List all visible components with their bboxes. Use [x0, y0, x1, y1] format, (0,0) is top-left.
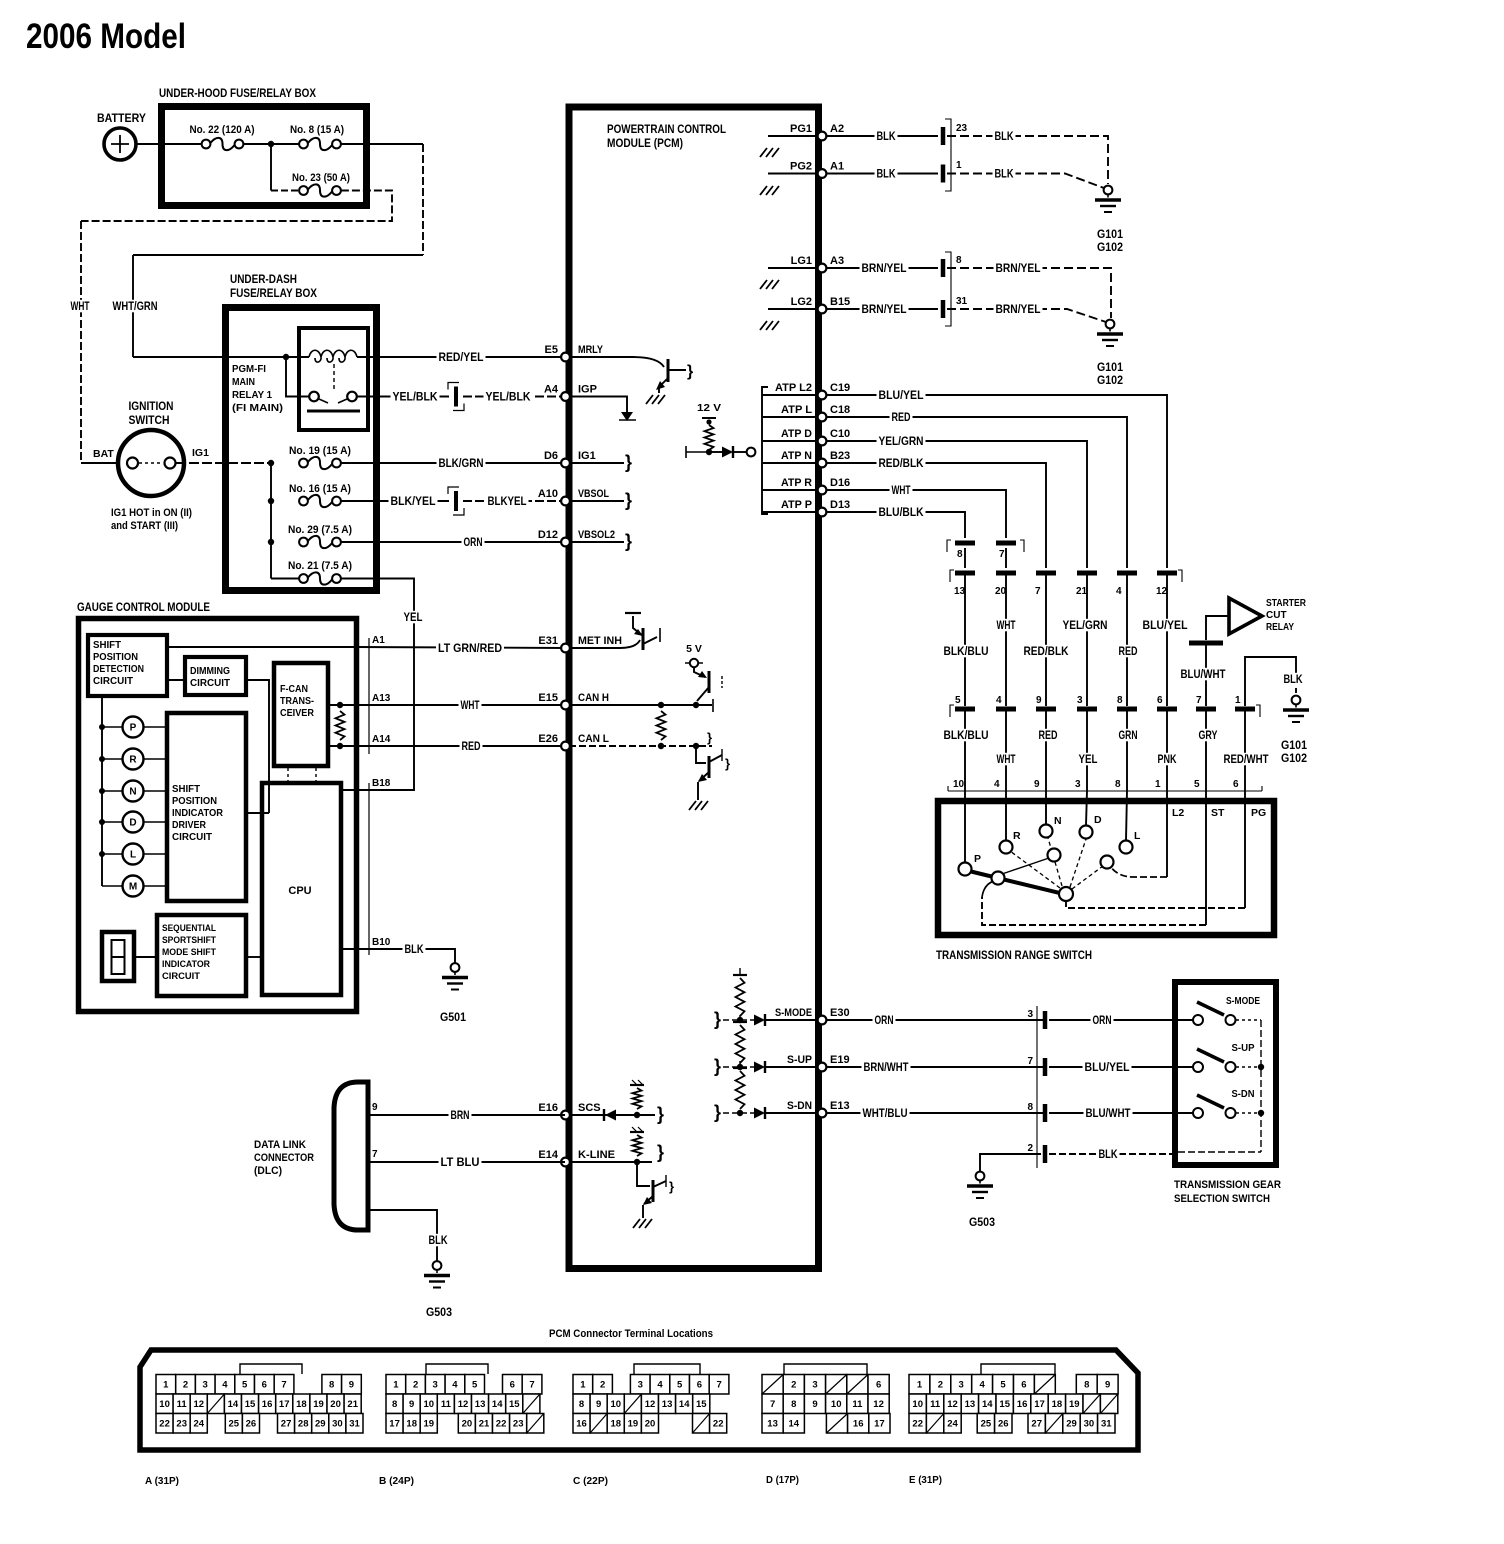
svg-text:VBSOL: VBSOL [578, 488, 609, 500]
fuse No.23 (50 A) [299, 184, 341, 196]
svg-text:1: 1 [393, 1380, 399, 1391]
svg-text:D6: D6 [544, 450, 558, 462]
svg-text:S-UP: S-UP [787, 1054, 812, 1066]
resistor CAN bus internal [657, 711, 666, 740]
label RED row2 [1037, 729, 1060, 742]
svg-text:11: 11 [930, 1399, 941, 1410]
svg-text:BAT: BAT [93, 448, 114, 460]
svg-text:SWITCH: SWITCH [129, 415, 170, 427]
diode D2 SCS [604, 1109, 616, 1121]
label PGM-FI MAIN RELAY 1 (FI MAIN) [232, 364, 283, 414]
svg-text:7: 7 [1035, 586, 1041, 597]
svg-text:2: 2 [413, 1380, 418, 1391]
wire WHT to ignition switch BAT [81, 462, 118, 464]
pin D6 PCM terminal IG1 [544, 450, 596, 467]
wire IG1 to under-dash box [176, 462, 271, 464]
node open circle 12V output [747, 448, 756, 457]
svg-text:11: 11 [177, 1399, 188, 1410]
label BLK/YEL [389, 495, 438, 508]
svg-text:ATP D: ATP D [781, 428, 812, 440]
range switch connector bracket line [948, 786, 1262, 791]
svg-text:}: } [725, 756, 730, 771]
switch S-DN [1193, 1095, 1236, 1118]
connector bar pin 9 row2 [1036, 707, 1056, 712]
wire BRN/YEL A3 to connector [826, 267, 938, 269]
contact R circle [1000, 841, 1013, 854]
svg-text:No. 21 (7.5 A): No. 21 (7.5 A) [288, 560, 352, 572]
svg-text:18: 18 [296, 1399, 307, 1410]
label BLU/YEL column [1141, 619, 1190, 632]
svg-text:BLU/YEL: BLU/YEL [1143, 620, 1188, 632]
connector bracket LG pair [945, 252, 951, 326]
wire K-LINE internal [569, 1161, 652, 1163]
connector bracket main row [950, 570, 1182, 582]
label YEL/GRN ATP [877, 435, 926, 448]
svg-text:BLK/YEL: BLK/YEL [391, 496, 436, 508]
svg-text:K-LINE: K-LINE [578, 1149, 615, 1161]
wire YEL fuse21 to gauge B18 [341, 579, 414, 791]
junction CAN L resistor [658, 743, 664, 749]
label BRN/YEL A3 right [994, 262, 1043, 275]
wire IG1 internal stub [569, 462, 624, 464]
connector bar starter cut relay [1189, 641, 1223, 646]
transistor Q4 CAN L [696, 746, 722, 800]
relay actuator dashed link [333, 364, 335, 390]
svg-text:INDICATOR: INDICATOR [162, 959, 210, 970]
bracket CAN H end [712, 699, 714, 712]
svg-text:25: 25 [981, 1419, 992, 1430]
wire ATP R internal stub [762, 489, 817, 491]
svg-text:(FI MAIN): (FI MAIN) [232, 403, 283, 414]
under-hood fuse/relay box [162, 107, 367, 206]
svg-text:CAN L: CAN L [578, 733, 609, 745]
svg-text:B23: B23 [830, 450, 850, 462]
label BLU/WHT [1179, 668, 1228, 681]
svg-text:2: 2 [183, 1380, 188, 1391]
svg-text:ORN: ORN [875, 1015, 894, 1027]
wiper circle 1 [992, 872, 1005, 885]
connector bar pin 20 main row [996, 571, 1016, 576]
wire S-MODE common dash [1236, 1019, 1261, 1021]
label PNK row2 [1156, 753, 1179, 766]
svg-text:R: R [129, 755, 137, 766]
ground internal MRLY [646, 395, 665, 404]
svg-text:A (31P): A (31P) [145, 1475, 179, 1487]
label BLK/BLU row2 [942, 729, 991, 742]
svg-text:9: 9 [372, 1102, 378, 1113]
svg-text:C19: C19 [830, 382, 850, 394]
wire WHT/GRN into relay coil [133, 356, 309, 358]
svg-text:MODULE (PCM): MODULE (PCM) [607, 138, 683, 150]
label G101 G102 right [1281, 740, 1308, 765]
svg-text:CPU: CPU [288, 885, 311, 897]
svg-text:S-UP: S-UP [1232, 1043, 1255, 1054]
svg-text:BLK: BLK [405, 944, 425, 956]
label IG1 HOT in ON (II) and START (III) [111, 507, 192, 532]
svg-text:G101: G101 [1097, 229, 1124, 241]
wire BLK pin2 to ground G503 [980, 1154, 1041, 1172]
svg-text:FUSE/RELAY BOX: FUSE/RELAY BOX [230, 286, 317, 300]
connector pin 31 [941, 300, 946, 318]
F-CAN transceiver box [274, 663, 328, 766]
pin E26 PCM terminal CAN L [538, 733, 609, 750]
junction A14 resistor bottom [337, 743, 343, 749]
svg-text:A14: A14 [372, 734, 391, 745]
wire LT BLU DLC to PCM E14 [368, 1161, 565, 1163]
pin E30 PCM terminal S-MODE [775, 1007, 850, 1024]
svg-text:19: 19 [1069, 1399, 1080, 1410]
wire LG1 internal to ground [768, 267, 817, 269]
label BLK right column [1282, 673, 1305, 686]
svg-text:CIRCUIT: CIRCUIT [162, 971, 200, 982]
svg-text:WHT: WHT [892, 485, 911, 497]
svg-text:G101: G101 [1097, 362, 1124, 374]
svg-text:E15: E15 [538, 692, 558, 704]
label BLU/YEL ATP [877, 389, 926, 402]
gear switch connector bracket [1036, 1006, 1038, 1168]
wiper circle L2 [1101, 856, 1114, 869]
svg-text:DRIVER: DRIVER [172, 820, 207, 831]
svg-text:BATTERY: BATTERY [97, 113, 146, 125]
svg-text:MRLY: MRLY [578, 344, 604, 356]
svg-text:4: 4 [1116, 586, 1122, 597]
connector A key bracket [240, 1364, 302, 1374]
svg-text:D: D [129, 818, 136, 829]
wire BLK dashed segment [1295, 672, 1297, 695]
connector bar pin 1 row2 [1235, 707, 1255, 712]
svg-text:B (24P): B (24P) [379, 1475, 414, 1487]
label IGNITION SWITCH [129, 401, 174, 427]
connector pin 3 gear switch [1043, 1011, 1048, 1029]
wire WHT vertical to ignition switch [80, 221, 82, 463]
wire 7seg to sportshift box [134, 956, 157, 958]
connector bracket PG pair [945, 119, 951, 191]
svg-text:}: } [657, 1104, 664, 1124]
svg-text:12: 12 [1156, 586, 1168, 597]
wire common bottom dash [1178, 1151, 1261, 1153]
svg-text:and START (III): and START (III) [111, 520, 178, 532]
svg-text:1: 1 [1235, 695, 1241, 706]
wire junction to fuse No.8 [271, 143, 299, 145]
connector bar pin 3 row2 [1077, 707, 1097, 712]
svg-text:20: 20 [330, 1399, 341, 1410]
svg-text:10: 10 [424, 1399, 435, 1410]
node L shift position contact [99, 844, 167, 865]
ignition switch [118, 430, 184, 496]
transistor Q2 MET INH [569, 613, 660, 650]
svg-text:16: 16 [576, 1419, 587, 1430]
power bar S-MODE [733, 968, 747, 975]
label ORN left [873, 1014, 896, 1027]
svg-text:22: 22 [496, 1419, 507, 1430]
svg-text:RED/YEL: RED/YEL [439, 352, 484, 364]
svg-text:C10: C10 [830, 428, 850, 440]
svg-text:11: 11 [441, 1399, 452, 1410]
label WHT column [995, 619, 1018, 632]
svg-text:5: 5 [1000, 1380, 1006, 1391]
relay contact blade stubs [319, 399, 347, 403]
svg-text:15: 15 [999, 1399, 1010, 1410]
svg-text:E14: E14 [538, 1149, 558, 1161]
svg-text:No. 22 (120 A): No. 22 (120 A) [190, 124, 255, 136]
wire PG2 internal to ground [768, 173, 817, 175]
wiper link line [1002, 858, 1049, 874]
svg-text:STARTER: STARTER [1266, 598, 1307, 609]
node N shift position contact [99, 781, 167, 802]
svg-text:No. 23 (50 A): No. 23 (50 A) [292, 172, 350, 184]
label BLKYEL [486, 495, 529, 508]
label BLK A1 right [993, 167, 1016, 180]
seven-segment indicator icon [102, 932, 134, 981]
svg-text:17: 17 [279, 1399, 290, 1410]
junction relay coil feed [283, 354, 289, 360]
label LT GRN/RED [436, 642, 504, 655]
svg-text:RELAY: RELAY [1266, 622, 1294, 633]
junction IG1 bus top [268, 460, 274, 466]
svg-text:BLK/BLU: BLK/BLU [944, 646, 989, 658]
connector bar pin 4 row2 [996, 707, 1016, 712]
svg-text:IG1: IG1 [192, 447, 209, 459]
svg-text:PGM-FI: PGM-FI [232, 364, 266, 375]
ground internal CAN L [689, 801, 708, 810]
resistor pullup S-DN [736, 1071, 745, 1109]
svg-text:LG2: LG2 [791, 296, 812, 308]
pin E19 PCM terminal S-UP [787, 1054, 850, 1071]
svg-text:8: 8 [329, 1380, 334, 1391]
wire DLC shield to ground [368, 1210, 437, 1261]
svg-text:TRANS-: TRANS- [280, 696, 314, 707]
wire starter cut relay feed [1206, 616, 1229, 640]
wire pin 5 row2 down to switch [964, 712, 966, 792]
svg-text:1: 1 [917, 1380, 923, 1391]
label YEL/BLK right [484, 390, 533, 403]
svg-text:UNDER-DASH: UNDER-DASH [230, 272, 297, 286]
svg-text:L: L [130, 850, 136, 861]
wire SCS internal [569, 1114, 655, 1116]
label DIMMING CIRCUIT [190, 666, 230, 689]
svg-text:7: 7 [1196, 695, 1202, 706]
svg-text:CUT: CUT [1266, 610, 1287, 621]
ground internal LG2 [760, 321, 779, 330]
svg-text:S-DN: S-DN [787, 1100, 812, 1112]
junction S-UP common [1258, 1064, 1264, 1070]
svg-text:LT BLU: LT BLU [441, 1157, 480, 1169]
wire WHT/BLU E13 to connector [826, 1112, 1043, 1114]
node M shift position contact [102, 876, 167, 897]
svg-text:31: 31 [1101, 1419, 1112, 1430]
resistor CAN termination in gauge [336, 711, 345, 740]
wire bus to fuse No.21 [271, 578, 299, 580]
label BLK DLC [427, 1234, 450, 1247]
svg-text:MAIN: MAIN [232, 377, 255, 388]
resistor pullup S-UP [736, 1025, 745, 1063]
svg-text:E31: E31 [538, 635, 558, 647]
svg-text:YEL/BLK: YEL/BLK [486, 392, 532, 404]
wire BLK A1 to connector [826, 173, 938, 175]
svg-text:}: } [714, 1009, 721, 1029]
svg-text:14: 14 [789, 1419, 800, 1430]
svg-text:28: 28 [298, 1419, 309, 1430]
svg-text:L2: L2 [1172, 807, 1184, 819]
svg-text:DATA LINK: DATA LINK [254, 1139, 306, 1151]
junction node under-hood [268, 141, 274, 147]
wire pin 20 down to range switch connector [1005, 576, 1007, 707]
svg-text:PG: PG [1251, 807, 1266, 819]
svg-text:3: 3 [1027, 1009, 1033, 1020]
wire ORN fuse29 to PCM D12 [341, 541, 565, 543]
label DATA LINK CONNECTOR (DLC) [254, 1139, 314, 1177]
svg-text:RED: RED [1039, 730, 1058, 742]
svg-text:6: 6 [262, 1380, 267, 1391]
svg-text:ATP N: ATP N [781, 450, 812, 462]
connector bar pin 7 row2 [1196, 707, 1216, 712]
svg-text:L: L [1134, 830, 1141, 842]
svg-text:}: } [625, 452, 632, 472]
wire ORN connector to switch [1049, 1019, 1193, 1021]
svg-text:B15: B15 [830, 296, 850, 308]
label UNDER-DASH FUSE/RELAY BOX [230, 272, 317, 300]
label ORN right [1091, 1014, 1114, 1027]
svg-text:25: 25 [229, 1419, 240, 1430]
svg-text:N: N [129, 787, 136, 798]
svg-text:BRN/YEL: BRN/YEL [862, 304, 907, 316]
circuit internal S-MODE [714, 1009, 754, 1029]
connector D (17P) grid [762, 1375, 890, 1434]
wire fuse bus vertical [270, 463, 272, 579]
pin B23 PCM terminal ATP N [781, 450, 850, 467]
pin E5 PCM terminal MRLY [545, 344, 604, 361]
label BLK gear [1097, 1148, 1120, 1161]
svg-text:BLU/WHT: BLU/WHT [1086, 1108, 1131, 1120]
label WHT [69, 300, 92, 313]
wire RED ATP to connector column x=1127 [826, 417, 1127, 568]
svg-text:7: 7 [770, 1399, 775, 1410]
wire RED/BLK ATP to connector column x=1046 [826, 463, 1046, 568]
svg-text:12: 12 [947, 1399, 958, 1410]
svg-text:E5: E5 [545, 344, 558, 356]
wire BLK/GRN fuse19 to PCM D6 [341, 462, 565, 464]
svg-text:17: 17 [874, 1419, 885, 1430]
junction SCS [634, 1112, 640, 1118]
svg-text:14: 14 [228, 1399, 239, 1410]
power bar S-UP [733, 1015, 747, 1022]
svg-text:TRANSMISSION GEAR: TRANSMISSION GEAR [1174, 1179, 1281, 1191]
svg-text:D: D [1094, 814, 1102, 826]
shift position bus vertical [101, 698, 103, 886]
dashed link F-CAN to CPU left [287, 768, 289, 781]
svg-text:6: 6 [510, 1380, 515, 1391]
wire ATP D internal stub [762, 440, 817, 442]
svg-text:MET INH: MET INH [578, 635, 622, 647]
wire to fuse No.23 [271, 190, 299, 192]
shift position detection circuit box [88, 635, 167, 696]
resistor 12V pullup [705, 425, 714, 450]
svg-text:31: 31 [956, 296, 968, 307]
connector B (24P) grid [386, 1375, 544, 1434]
svg-text:22: 22 [159, 1419, 170, 1430]
fuse No.21 (7.5 A) [299, 572, 341, 584]
svg-text:21: 21 [479, 1419, 490, 1430]
power bar S-DN [733, 1061, 747, 1068]
svg-text:POSITION: POSITION [93, 652, 138, 663]
label BRN/YEL A3 left [860, 262, 909, 275]
junction A13 resistor top [337, 702, 343, 708]
svg-text:16: 16 [1017, 1399, 1028, 1410]
svg-text:}: } [687, 363, 693, 380]
svg-text:BLK/GRN: BLK/GRN [439, 458, 484, 470]
wire junction down to fuse No.23 [270, 144, 272, 191]
svg-text:D (17P): D (17P) [766, 1474, 799, 1486]
wire BLU/WHT down to row2 [1205, 646, 1207, 707]
svg-text:19: 19 [313, 1399, 324, 1410]
wire BLK pin2 to switch [1049, 1153, 1175, 1155]
wire BRN/YEL B15 to connector [826, 308, 938, 310]
svg-text:CIRCUIT: CIRCUIT [172, 832, 212, 843]
svg-text:YEL: YEL [404, 612, 423, 624]
svg-text:17: 17 [1034, 1399, 1045, 1410]
svg-text:GRN: GRN [1119, 730, 1138, 742]
label SHIFT POSITION INDICATOR DRIVER CIRCUIT [172, 784, 224, 843]
junction 12V node [706, 449, 712, 455]
ATP connector bracket [762, 387, 768, 514]
diode S-UP [754, 1061, 817, 1073]
wiper pivot circle [1059, 887, 1073, 901]
svg-text:WHT: WHT [461, 700, 480, 712]
svg-text:SHIFT: SHIFT [172, 784, 200, 795]
wire ATP P internal stub [762, 511, 817, 513]
label WHT row2 [995, 753, 1018, 766]
label YEL [402, 611, 425, 624]
svg-text:S-MODE: S-MODE [775, 1007, 812, 1019]
svg-text:WHT/BLU: WHT/BLU [863, 1108, 908, 1120]
svg-text:17: 17 [389, 1419, 400, 1430]
svg-text:TRANSMISSION RANGE SWITCH: TRANSMISSION RANGE SWITCH [936, 948, 1092, 962]
svg-text:WHT: WHT [997, 620, 1016, 632]
svg-text:13: 13 [954, 586, 966, 597]
svg-text:4: 4 [222, 1380, 228, 1391]
label BLK/GRN [437, 457, 486, 470]
connector bracket upper row [947, 540, 1024, 552]
label BRN/YEL B15 left [860, 303, 909, 316]
fuse No.8 (15 A) [299, 138, 341, 150]
resistor SCS pullup [633, 1088, 642, 1109]
svg-text:3: 3 [812, 1380, 817, 1391]
connector bracket row2 [950, 705, 1260, 717]
label WHT ATP [890, 484, 913, 497]
pin E13 PCM terminal S-DN [787, 1100, 850, 1117]
connector bar pin 8 upper [955, 541, 975, 546]
wire VBSOL internal stub [569, 500, 624, 502]
wire pin 8 row2 down to switch [1126, 712, 1128, 792]
PGM-FI main relay 1 box [299, 328, 368, 430]
svg-text:(DLC): (DLC) [254, 1165, 282, 1177]
power bar K-LINE [630, 1127, 644, 1132]
ground internal PG1 [760, 148, 779, 157]
transmission range switch box [938, 801, 1274, 935]
wire L2 into box [1166, 791, 1168, 877]
svg-text:CONNECTOR: CONNECTOR [254, 1152, 314, 1164]
wire IGP internal [569, 397, 627, 413]
svg-text:1: 1 [580, 1380, 586, 1391]
wire sportshift to CPU [246, 956, 262, 958]
connector bar pin 12 main row [1157, 571, 1177, 576]
label TRANSMISSION GEAR SELECTION SWITCH [1174, 1179, 1281, 1205]
label RED [460, 740, 483, 753]
svg-text:BLKYEL: BLKYEL [488, 496, 527, 508]
dashed ray pivot to L wiper [1072, 866, 1103, 889]
label GRY row2 [1197, 729, 1220, 742]
svg-text:PG1: PG1 [790, 123, 812, 135]
